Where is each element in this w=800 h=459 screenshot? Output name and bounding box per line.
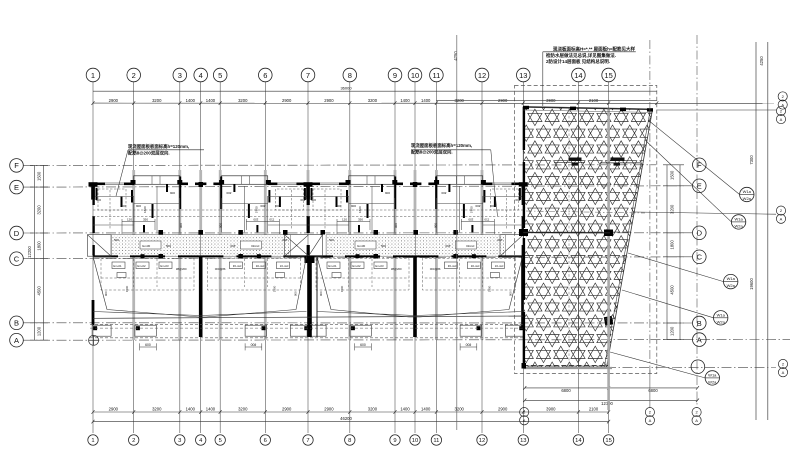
svg-text:Gm30: Gm30 [142,244,151,248]
svg-text:3200: 3200 [152,98,162,103]
svg-text:1400: 1400 [186,407,196,412]
vertical grid lines for axes 1-15 [93,82,609,433]
axis bubbles A-F right [691,158,706,374]
svg-text:3200: 3200 [368,407,378,412]
svg-text:900: 900 [179,223,183,228]
svg-text:B: B [14,319,19,328]
svg-text:现浇屋面板板面标高h=120mm,: 现浇屋面板板面标高h=120mm, [128,143,189,150]
svg-text:6: 6 [264,438,267,444]
wing inner tiny labels [569,158,625,166]
svg-text:5: 5 [219,438,222,444]
svg-text:14: 14 [575,438,582,444]
svg-text:A: A [780,117,783,122]
left vertical dimension lines [30,165,48,340]
wing top edge wall [523,107,652,109]
leader from top annotation [542,52,544,106]
stem above bubble column [649,40,651,373]
svg-text:3: 3 [178,438,181,444]
svg-text:7: 7 [306,71,310,80]
svg-text:15: 15 [604,71,612,80]
svg-text:W1a: W1a [734,216,743,221]
svg-text:Gm-02: Gm-02 [137,264,146,268]
svg-text:1: 1 [91,438,94,444]
star hatch field [511,93,663,378]
left party wall segments [92,184,94,256]
svg-text:配筋⑞8@200双层双向.: 配筋⑞8@200双层双向. [128,150,170,157]
svg-text:9: 9 [393,71,397,80]
svg-text:E: E [14,183,19,192]
leader lines from wing to bubbles [610,120,776,378]
svg-text:1400: 1400 [206,98,216,103]
svg-text:1800: 1800 [670,239,675,249]
stair X-box left end [87,235,111,257]
svg-text:120: 120 [127,218,132,222]
bottom dashed eave band [90,324,523,338]
interior hidden beams dashed [93,189,201,230]
svg-text:W1a: W1a [743,189,752,194]
small dim line in room [122,219,155,234]
svg-text:1500: 1500 [670,170,675,180]
svg-text:3900: 3900 [546,407,556,412]
svg-text:2900: 2900 [324,98,334,103]
svg-text:2: 2 [132,71,136,80]
svg-text:2: 2 [132,438,135,444]
wing bottom line extension to right edge [606,366,776,368]
svg-text:2900: 2900 [498,407,508,412]
party wall verticals below C at axes 4,7,10 [92,256,524,337]
top dimension line 1 with 36000 [93,90,657,92]
svg-text:500: 500 [114,238,119,242]
svg-text:A: A [695,418,698,423]
svg-text:11: 11 [433,71,441,80]
svg-text:W2a: W2a [717,319,726,324]
svg-text:1: 1 [91,71,95,80]
svg-text:4500: 4500 [37,285,42,295]
svg-text:11: 11 [433,438,439,444]
svg-text:1800: 1800 [143,206,147,213]
svg-text:1500: 1500 [37,171,42,181]
svg-text:13: 13 [519,71,527,80]
wing left wall [523,107,525,367]
svg-text:12: 12 [479,438,485,444]
left dimension texts [27,171,42,336]
svg-text:A: A [14,336,19,345]
svg-text:A: A [523,418,526,423]
svg-text:8: 8 [348,438,351,444]
svg-text:3200: 3200 [455,407,465,412]
svg-text:3200: 3200 [37,205,42,215]
wing inner beam dashed line [526,211,645,213]
svg-text:19600: 19600 [749,278,754,290]
wing columns on D line [519,229,528,236]
svg-text:B: B [697,319,702,328]
stair X-box at axis 13 [500,235,523,257]
svg-text:7: 7 [306,438,309,444]
svg-text:3: 3 [178,71,182,80]
svg-text:500: 500 [166,244,171,248]
bottom right wing dims 12100 [525,399,698,401]
annotation text block top (3 lines) [546,46,636,65]
svg-text:7300: 7300 [749,155,754,165]
svg-text:W1a: W1a [727,276,736,281]
svg-text:14: 14 [574,71,582,80]
right vertical dimension lines [663,165,684,340]
svg-text:13: 13 [520,438,526,444]
svg-text:1400: 1400 [206,407,216,412]
stacked bubble pair under wing B [645,408,654,417]
detail bubble W5 [705,371,719,385]
unit 3 [307,176,418,351]
stems below plan to bottom bubbles [649,370,651,408]
stacked bubble pair top right 2 [776,106,785,115]
axis bubbles A-F left [10,159,24,347]
svg-text:Gm-01: Gm-01 [113,264,122,268]
svg-text:1400: 1400 [400,98,410,103]
svg-text:Gm-03: Gm-03 [160,264,169,268]
svg-text:600: 600 [145,343,151,347]
svg-text:A: A [649,418,652,423]
svg-text:4500: 4500 [670,285,675,295]
party wall T columns on E line [89,182,528,200]
svg-text:12: 12 [478,71,486,80]
svg-text:1200: 1200 [37,326,42,336]
tiny room labels [96,191,183,228]
top vertical line at x457 [456,35,458,430]
lower zone dashed outline [101,259,194,291]
stacked bubble pair under wing 13 [520,408,529,417]
svg-text:2900: 2900 [324,407,334,412]
svg-text:2100: 2100 [589,407,599,412]
svg-text:W1a: W1a [717,312,726,317]
svg-text:900: 900 [170,191,175,195]
svg-text:1200: 1200 [670,326,675,336]
svg-text:2900: 2900 [282,98,292,103]
svg-text:C: C [697,253,703,262]
stacked bubble pair right mid [776,206,785,215]
svg-text:C: C [14,255,20,264]
detail bubble W3 [724,274,738,288]
interior partitions thin [93,186,180,232]
unit 2 mirrored [198,176,309,351]
axis bubbles 1-15 bottom [88,435,614,445]
balcony boxes on B line [92,325,156,336]
svg-text:D: D [697,229,703,238]
svg-text:A: A [780,217,783,222]
svg-text:4250: 4250 [759,56,764,66]
svg-text:2900: 2900 [109,98,119,103]
svg-text:3200: 3200 [238,98,248,103]
wing inner grid verticals [577,107,579,368]
annotation text block left (slab note) [128,143,189,157]
svg-text:1500: 1500 [125,285,129,292]
svg-text:4: 4 [199,71,203,80]
svg-text:8: 8 [348,71,352,80]
svg-text:E: E [697,182,702,191]
small equipment boxes [112,262,172,278]
top dimension numbers [109,98,599,103]
datum circle bottom-left [89,335,99,345]
svg-text:A: A [782,370,785,375]
svg-text:5: 5 [218,71,222,80]
detail bubble W4 [714,311,728,325]
svg-text:W2a: W2a [734,223,743,228]
600 dim box under balcony [140,343,157,350]
svg-text:900: 900 [121,204,126,208]
detail bubble W1 [740,187,754,201]
annotation text block mid (slab note) [411,142,472,156]
far right boundary lines [756,42,768,420]
svg-text:1400: 1400 [186,98,196,103]
svg-text:6800: 6800 [561,388,571,393]
svg-text:2900: 2900 [282,407,292,412]
bottom overall 46200 line [93,421,609,423]
svg-text:W2a: W2a [743,196,752,201]
svg-text:15: 15 [605,438,611,444]
stair X-box at axis 7 [285,235,323,257]
svg-text:1400: 1400 [400,407,410,412]
roof valley W lines [93,257,523,318]
stacked bubble pair top right 1 [778,92,787,101]
svg-text:D: D [14,229,20,238]
svg-text:1800: 1800 [37,241,42,251]
svg-text:F: F [14,161,19,170]
svg-text:4250: 4250 [453,51,458,61]
wing slab outline [523,107,652,368]
top bay window rectangle [134,176,180,185]
top dimension line 2 with ticks [93,102,774,104]
E-line exterior wall segments [93,183,201,186]
right stems vertical line [696,35,698,408]
bottom right wing dims 6800 [525,387,698,389]
svg-text:9: 9 [393,438,396,444]
svg-text:350: 350 [143,218,148,222]
stacked bubble pair right bottom [778,359,787,368]
wing D-line wall [523,232,610,234]
svg-text:6: 6 [263,71,267,80]
grid line emphasis inside plan [134,170,482,340]
stacked bubble pair under wing 4 [692,408,701,417]
svg-text:#8@200: #8@200 [176,267,187,271]
horizontal axis grid lines A-F (dash-dot) [24,165,791,340]
detail bubble W2 [731,215,745,229]
svg-text:现浇屋面板板面标高h=120mm,: 现浇屋面板板面标高h=120mm, [411,142,472,149]
interior wall stubs below E [97,177,181,233]
svg-text:10: 10 [411,71,419,80]
svg-text:3200: 3200 [152,407,162,412]
svg-text:A: A [697,335,702,344]
unit 4 mirrored [413,176,524,351]
svg-text:2防设计14层面板 见结构总说明.: 2防设计14层面板 见结构总说明. [546,58,610,65]
B line wall [93,316,523,318]
wing top dim line [436,99,656,101]
second line to right pair [657,109,776,111]
D-line columns [159,230,164,235]
svg-text:10: 10 [412,438,418,444]
svg-text:3200: 3200 [238,407,248,412]
svg-text:2900: 2900 [109,407,119,412]
svg-text:3200: 3200 [368,98,378,103]
svg-text:W2a: W2a [727,283,736,288]
svg-text:1400: 1400 [421,407,431,412]
svg-text:46200: 46200 [340,416,352,421]
svg-text:12200: 12200 [27,246,32,258]
svg-text:W2a: W2a [708,379,717,384]
wing dashed boundary rectangle [515,86,657,374]
svg-text:900: 900 [136,204,141,208]
C-line wall segments [93,255,201,257]
bottom dimension number row [93,411,609,413]
wing bottom wall [523,365,608,367]
svg-text:900: 900 [96,198,101,202]
svg-text:900: 900 [104,291,108,296]
axis bubbles 1-15 top [86,68,615,82]
corridor stipple slab [111,235,201,257]
svg-text:1400: 1400 [421,98,431,103]
svg-text:W1a: W1a [708,372,717,377]
svg-text:36000: 36000 [340,86,352,91]
